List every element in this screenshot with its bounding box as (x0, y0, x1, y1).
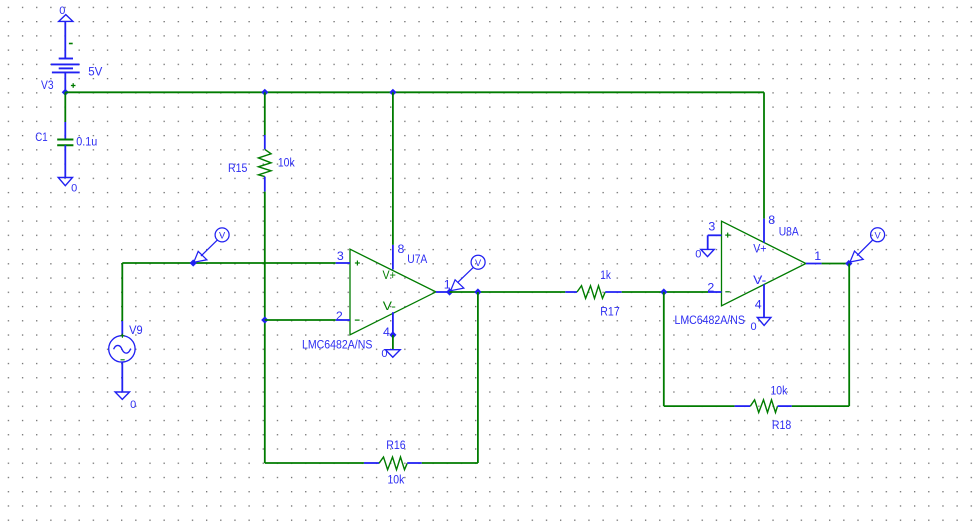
resistor R16 (364, 457, 422, 470)
wire input net (V9 to pin3) (122, 262, 335, 264)
node junction rail/U7A pin8 (389, 89, 396, 96)
svg-text:C1: C1 (35, 130, 47, 144)
source V9 (109, 321, 135, 392)
wire R15 down to pin2 node and R16 (264, 192, 266, 463)
node junction rail/R15 (261, 89, 268, 96)
wire R17 to U8A pin2 (622, 291, 708, 293)
svg-text:10k: 10k (278, 155, 295, 169)
ground 0 (below C1) (58, 178, 77, 195)
svg-text:V-: V- (753, 273, 766, 287)
node junction U8A out (845, 260, 852, 267)
svg-text:R16: R16 (386, 438, 405, 452)
wire rail to U7A pin8 (392, 92, 394, 245)
capacitor C1 (57, 122, 73, 178)
wire top rail (65, 91, 764, 93)
svg-text:V3: V3 (41, 78, 54, 92)
resistor R15 (258, 135, 271, 192)
wire V3 top pin (64, 21, 66, 58)
ground 0 (U8A pin4) (751, 318, 771, 333)
wire R18 right (792, 405, 849, 407)
svg-text:0: 0 (695, 249, 701, 261)
op-amp U7A (336, 245, 450, 335)
wire R16 right (422, 462, 478, 464)
wire rail to U8A pin8 (763, 92, 765, 218)
svg-text:10k: 10k (388, 473, 405, 487)
svg-text:LMC6482A/NS: LMC6482A/NS (675, 313, 745, 327)
svg-text:U8A: U8A (779, 225, 800, 239)
svg-text:V: V (475, 258, 482, 268)
wire R18 left (664, 405, 735, 407)
svg-text:10k: 10k (771, 383, 788, 397)
node junction R15/pin2 (261, 316, 268, 323)
svg-text:U7A: U7A (407, 252, 428, 266)
wire pin2 U7A (265, 319, 336, 321)
node junction V3/rail (62, 89, 69, 96)
wire R16 left (265, 462, 364, 464)
node junction out/R16 (474, 288, 481, 295)
wire R16 vertical (477, 292, 479, 463)
svg-text:V-: V- (383, 299, 396, 313)
svg-text:R17: R17 (600, 305, 619, 319)
svg-text:2: 2 (336, 309, 343, 323)
svg-text:V: V (874, 230, 881, 240)
svg-text:8: 8 (768, 213, 775, 227)
svg-text:8: 8 (398, 242, 405, 256)
wire V3 to C1 (64, 92, 66, 122)
svg-text:V+: V+ (753, 242, 766, 256)
svg-text:V+: V+ (383, 268, 396, 282)
svg-text:5V: 5V (88, 64, 103, 78)
voltage probe (U8A output) (850, 228, 885, 262)
svg-text:2: 2 (707, 281, 714, 295)
node junction U7A pin4 (389, 331, 396, 338)
wire U7A out to R17 (450, 291, 566, 293)
resistor R18 (735, 400, 792, 413)
svg-text:0: 0 (130, 399, 136, 411)
wire R18 left vertical (663, 292, 665, 406)
ground 0 (top of V3) (59, 5, 73, 21)
voltage probe (U7A output) (451, 255, 486, 291)
op-amp U8A (708, 219, 822, 318)
ground 0 (U7A pin4) (381, 348, 400, 360)
node junction U7A output/probe (446, 288, 453, 295)
svg-text:0: 0 (751, 321, 757, 333)
svg-text:0: 0 (381, 348, 387, 360)
ground 0 (U8A pin3) (695, 249, 714, 261)
wire V9 vertical (121, 263, 123, 321)
node junction probe/input (190, 259, 197, 266)
wire pin4 to ground (392, 335, 394, 350)
svg-text:R15: R15 (228, 161, 247, 175)
svg-text:3: 3 (337, 249, 344, 263)
svg-text:0.1u: 0.1u (76, 135, 97, 149)
svg-text:R18: R18 (772, 418, 791, 432)
svg-text:1k: 1k (600, 268, 611, 282)
wire rail to R15 (264, 92, 266, 135)
ground 0 (below V9) (115, 392, 136, 411)
node junction R17/R18 (660, 288, 667, 295)
svg-text:1: 1 (814, 249, 821, 263)
wire U8A out (822, 263, 849, 265)
svg-text:LMC6482A/NS: LMC6482A/NS (302, 338, 372, 352)
resistor R17 (565, 286, 621, 299)
svg-text:4: 4 (383, 325, 390, 339)
svg-text:V9: V9 (129, 323, 143, 337)
svg-text:V: V (219, 231, 226, 241)
svg-text:0: 0 (71, 182, 77, 194)
voltage probe (input) (194, 228, 229, 262)
svg-text:4: 4 (755, 297, 762, 311)
svg-text:3: 3 (708, 219, 715, 233)
wire U8A out down (848, 264, 850, 407)
voltage source V3 (51, 44, 80, 92)
